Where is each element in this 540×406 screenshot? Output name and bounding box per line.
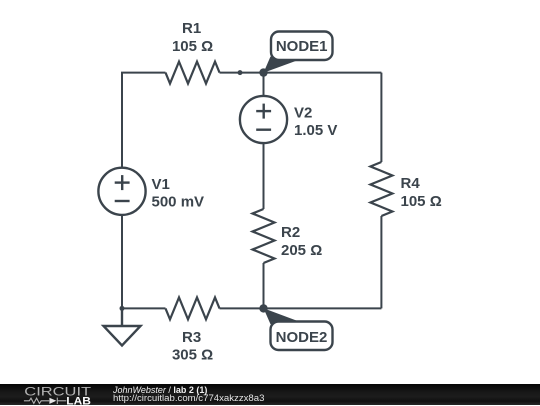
svg-text:R1: R1	[182, 20, 201, 37]
svg-text:V2: V2	[294, 105, 312, 122]
wire	[263, 143, 265, 209]
label R1	[172, 20, 213, 55]
svg-text:205 Ω: 205 Ω	[281, 242, 322, 259]
svg-text:R4: R4	[401, 175, 421, 192]
wire	[263, 73, 265, 96]
svg-text:NODE1: NODE1	[276, 38, 328, 55]
ground	[104, 308, 141, 345]
wire	[220, 72, 382, 74]
resistor R3	[166, 297, 220, 319]
node NODE2	[259, 304, 332, 350]
resistor R1	[166, 62, 220, 84]
svg-text:1.05 V: 1.05 V	[294, 122, 337, 139]
wire	[121, 215, 123, 309]
voltage source V2	[240, 96, 287, 143]
resistor R2	[253, 209, 275, 263]
svg-text:105 Ω: 105 Ω	[172, 38, 213, 55]
resistor R4	[370, 162, 392, 216]
wire	[380, 216, 382, 308]
svg-text:LAB: LAB	[66, 395, 91, 405]
label R4	[401, 175, 442, 210]
svg-text:R2: R2	[281, 224, 300, 241]
junction	[120, 306, 125, 311]
svg-text:500 mV: 500 mV	[152, 194, 205, 211]
label R3	[172, 329, 213, 364]
footer bar	[0, 384, 540, 406]
svg-text:105 Ω: 105 Ω	[401, 193, 442, 210]
node NODE1	[259, 32, 332, 77]
wire	[122, 73, 166, 168]
voltage source V1	[98, 168, 145, 215]
credit text	[113, 385, 207, 395]
wire	[263, 263, 265, 308]
wire	[220, 307, 382, 309]
label R2	[281, 224, 322, 259]
svg-text:R3: R3	[182, 329, 201, 346]
wire	[122, 307, 166, 309]
CircuitLab logo	[0, 384, 110, 406]
svg-text:V1: V1	[152, 176, 170, 193]
junction	[238, 70, 243, 75]
label V1	[152, 176, 205, 211]
label V2	[294, 105, 337, 140]
wire	[380, 73, 382, 162]
svg-text:NODE2: NODE2	[276, 329, 328, 346]
svg-text:305 Ω: 305 Ω	[172, 347, 213, 364]
